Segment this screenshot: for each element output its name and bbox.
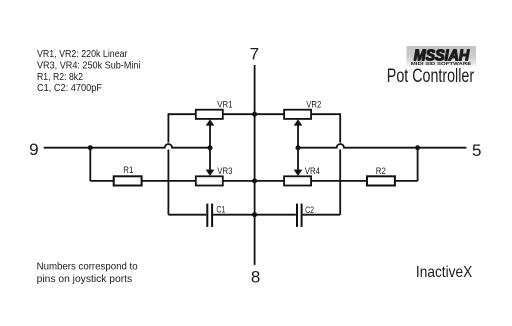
svg-text:InactiveX: InactiveX [416,264,473,281]
svg-text:pins on joystick ports: pins on joystick ports [37,273,133,285]
MSSIAH logo [407,46,477,67]
wire: VR2/VR4 wiper vertical [297,124,299,173]
svg-text:VR2: VR2 [306,99,321,109]
footnote joystick pins [37,261,138,285]
svg-text:8: 8 [251,267,260,286]
svg-text:Pot Controller: Pot Controller [387,66,475,87]
wire: pin 9 horizontal with hop over left branch [44,144,210,148]
svg-text:VR1: VR1 [217,99,232,109]
junction: center line on bottom rail [252,178,257,183]
svg-text:C2: C2 [305,205,314,215]
svg-text:7: 7 [250,45,259,64]
wire: VR1/VR3 wiper vertical [209,124,211,173]
svg-text:C1, C2: 4700pF: C1, C2: 4700pF [37,83,102,94]
junction: pin 9 line and R1 stub [88,145,93,150]
capacitor C2 [296,204,303,227]
svg-text:5: 5 [472,141,481,160]
junction: pin 5 line and R2 stub [415,145,420,150]
junction: VR2/VR4 wiper on pin 5 line [296,145,301,150]
svg-text:Numbers correspond to: Numbers correspond to [37,261,138,273]
potentiometer VR4 [284,170,311,186]
svg-text:VR1, VR2: 220k Linear: VR1, VR2: 220k Linear [37,49,128,60]
capacitor C1 [206,204,213,227]
svg-text:VR3: VR3 [217,166,232,176]
wire: pin 5 horizontal with hop over right branch [298,144,466,148]
wire: node 7 to node 8 center vertical [254,65,256,265]
wire: right branch vertical lower segment [339,150,341,215]
wire: left branch vertical upper segment [167,113,169,142]
junction: VR1/VR3 wiper on pin 9 line [208,145,213,150]
junction: center line on top rail [252,112,257,117]
wire: stub from pin 9 line down to R1 [89,148,91,181]
resistor R2 [367,176,395,185]
svg-text:R2: R2 [376,166,386,176]
wire: right branch vertical upper segment [339,113,341,142]
potentiometer VR2 [284,110,311,126]
svg-text:R1, R2: 8k2: R1, R2: 8k2 [37,72,83,83]
potentiometer VR1 [196,110,223,126]
resistor R1 [114,176,142,185]
svg-text:VR4: VR4 [305,166,320,176]
svg-text:R1: R1 [123,165,133,175]
svg-text:VR3, VR4: 250k Sub-Mini: VR3, VR4: 250k Sub-Mini [37,61,141,72]
junction: center line on capacitor row [252,212,257,217]
wire: capacitor row C1-C2 [168,214,340,216]
wire: left branch vertical lower segment [167,150,169,215]
wire: stub from pin 5 line down to R2 [417,148,419,181]
svg-text:9: 9 [29,140,38,159]
svg-text:C1: C1 [216,204,225,214]
potentiometer VR3 [196,170,223,186]
wire: top rail VR1-VR2 row [168,113,340,115]
wire: bottom rail R1-VR3-VR4-R2 row [90,180,417,182]
parts value list [37,49,141,94]
